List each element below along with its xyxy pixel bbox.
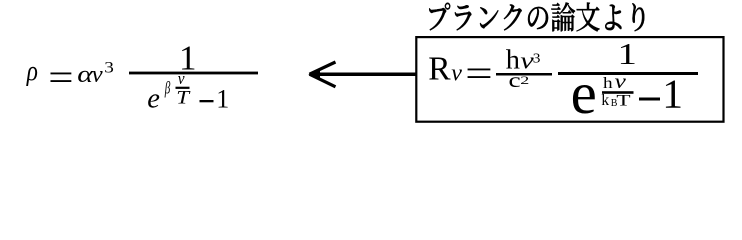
arrow head barb bottom — [310, 74, 336, 87]
svg-text:e: e — [147, 84, 160, 115]
arrow head tip wedge — [308, 69, 320, 80]
svg-text:R: R — [428, 51, 451, 88]
svg-text:T: T — [176, 87, 190, 108]
svg-text:T: T — [616, 92, 630, 110]
box small frac bar — [496, 73, 552, 76]
arrow head barb top — [310, 62, 336, 74]
svg-text:k: k — [601, 92, 609, 109]
svg-text:2: 2 — [520, 74, 529, 87]
svg-text:1: 1 — [216, 84, 229, 113]
box big frac bar — [558, 72, 698, 75]
svg-text:β: β — [164, 79, 171, 98]
arrow shaft — [310, 73, 416, 77]
svg-text:e: e — [571, 60, 597, 126]
box exp bar — [602, 91, 634, 94]
svg-text:ρ: ρ — [26, 55, 38, 87]
box border — [416, 37, 723, 122]
svg-text:ν: ν — [92, 61, 103, 88]
svg-text:=: = — [48, 56, 73, 98]
svg-text:h: h — [603, 74, 613, 92]
svg-text:1: 1 — [662, 71, 683, 117]
svg-text:3: 3 — [104, 58, 114, 76]
box minus — [639, 98, 660, 101]
svg-text:ν: ν — [451, 61, 462, 87]
svg-text:ν: ν — [615, 70, 627, 94]
svg-text:1: 1 — [618, 37, 637, 71]
left fraction bar — [129, 72, 258, 75]
japanese caption — [429, 2, 644, 31]
svg-text:3: 3 — [533, 51, 541, 66]
svg-text:c: c — [509, 69, 521, 92]
left denom minus — [200, 100, 214, 102]
left denom small bar — [176, 87, 190, 89]
svg-text:=: = — [465, 53, 493, 95]
